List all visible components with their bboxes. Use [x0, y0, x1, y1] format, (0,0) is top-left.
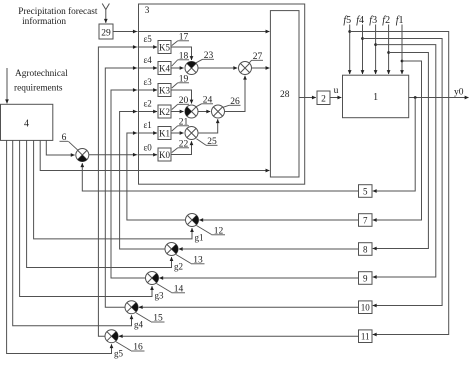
label 27 [249, 52, 263, 63]
summing junction 14 [146, 272, 159, 285]
wire agrotechnical input to block 4 [6, 68, 8, 103]
antenna (precipitation receiver) [102, 4, 109, 10]
summing junction 23 [185, 61, 198, 74]
wire box 9 to junction 14 [159, 277, 358, 279]
label f3 [369, 15, 377, 26]
wire junction 23 to junction 27 [198, 67, 237, 69]
label 15 [136, 313, 165, 324]
wire f4 tap to box 10 input [363, 39, 443, 306]
block 2 (actuator) [317, 91, 330, 105]
svg-text:requirements: requirements [14, 84, 63, 94]
svg-text:K2: K2 [159, 107, 170, 117]
svg-text:2: 2 [321, 95, 326, 105]
wire 17 K5 to junction 23 [171, 47, 192, 60]
label 12 [197, 226, 226, 237]
svg-text:g1: g1 [195, 233, 204, 243]
node f5 tap [348, 30, 351, 33]
svg-text:y0: y0 [454, 88, 464, 98]
wire box 7 to junction 12 [199, 219, 358, 221]
svg-text:K4: K4 [159, 63, 170, 73]
wire block 4 to junction 6 [46, 140, 74, 155]
wire block 4 drop to block 28 bottom input [40, 140, 269, 170]
wire block 4 drop to junction 12 (g1 feed) [34, 140, 192, 239]
wire junction 12 output to ε1 input [127, 133, 186, 220]
svg-text:K5: K5 [159, 42, 170, 52]
wire f5 into block 1 [349, 25, 351, 75]
wire y0 tap to box 5 input [373, 98, 415, 192]
svg-text:1: 1 [373, 92, 378, 103]
wire f2 tap to box 8 input [373, 53, 429, 249]
wire u block 2 to block 1 [330, 97, 341, 99]
block 4 (agrotechnical requirements setter) [1, 104, 53, 140]
node f4 tap [361, 37, 364, 40]
wire f3 tap to box 9 input [373, 45, 436, 277]
label 16 [116, 342, 145, 353]
svg-text:ε0: ε0 [144, 143, 153, 153]
label 19 [172, 75, 189, 89]
wire block 4 drop to junction 16 (g5 feed) [7, 140, 112, 353]
svg-text:u: u [334, 86, 339, 96]
svg-text:ε5: ε5 [144, 34, 153, 44]
label eps5 [144, 34, 153, 44]
wire block 4 drop to junction 13 (g2 feed) [27, 140, 172, 267]
svg-text:K3: K3 [159, 85, 170, 95]
block 8 (feedback sensor) [359, 243, 373, 256]
label 24 [196, 96, 213, 107]
node f2 tap [387, 51, 390, 54]
wire block 4 drop to junction 14 (g3 feed) [20, 140, 152, 296]
svg-text:Precipitation forecast: Precipitation forecast [18, 6, 98, 17]
wire 29 to block 28 top input [113, 31, 269, 33]
wire f1 tap to box 7 input [373, 61, 422, 220]
svg-text:3: 3 [145, 6, 150, 16]
svg-text:information: information [22, 16, 66, 27]
svg-text:K1: K1 [159, 128, 170, 138]
summing junction 13 [165, 243, 178, 256]
svg-text:4: 4 [24, 119, 29, 130]
label 6 [60, 133, 79, 150]
wire 22 K0 to junction 25 [171, 141, 192, 154]
summing junction 24 [185, 105, 198, 118]
block 29 (forecast receiver) [99, 24, 113, 39]
label eps2 [144, 98, 152, 108]
label g4 [134, 320, 144, 330]
label f5 [343, 15, 351, 26]
label 18 [172, 52, 189, 67]
block 9 (feedback sensor) [359, 272, 373, 285]
label Precipitation forecast information [18, 6, 98, 27]
summing junction 25 [185, 127, 198, 140]
label g3 [155, 291, 165, 301]
svg-text:ε3: ε3 [144, 77, 153, 87]
wire box 5 to junction 6 [82, 163, 358, 191]
wire 19 K3 to junction 24 [171, 90, 192, 104]
wire 21 K1 to junction 25 [171, 132, 184, 134]
label g2 [174, 262, 183, 272]
wire junction 25 to junction 26 [198, 119, 218, 133]
svg-text:5: 5 [363, 186, 368, 196]
label 22 [172, 140, 189, 153]
label g5 [114, 349, 124, 359]
svg-text:f2: f2 [382, 15, 390, 26]
wire box 8 to junction 13 [179, 248, 359, 250]
svg-text:11: 11 [361, 332, 370, 342]
wire f3 into block 1 [375, 25, 377, 75]
svg-text:g3: g3 [155, 291, 165, 301]
summing junction 12 [186, 214, 199, 227]
label 25 [197, 137, 218, 147]
wire junction 26 to junction 27 [225, 76, 246, 112]
summing junction 15 [125, 301, 138, 314]
block K1 [158, 127, 171, 140]
svg-text:f1: f1 [396, 15, 404, 26]
wire block 4 drop to junction 15 (g4 feed) [13, 140, 132, 325]
label 20 [172, 96, 189, 110]
svg-text:9: 9 [363, 273, 368, 283]
label eps1 [144, 120, 152, 130]
label f1 [396, 15, 404, 26]
block K4 [158, 62, 171, 75]
wire f2 into block 1 [388, 25, 390, 75]
svg-text:g5: g5 [114, 349, 124, 359]
label g1 [195, 233, 204, 243]
block 10 (feedback sensor) [359, 301, 373, 314]
label 26 [223, 97, 241, 107]
block 7 (feedback sensor) [359, 214, 373, 227]
svg-text:10: 10 [361, 303, 371, 313]
wire box 11 to junction 16 [119, 335, 359, 337]
block 28 (summator) [270, 11, 299, 177]
wire antenna to block 29 [105, 10, 107, 23]
svg-text:Agrotechnical: Agrotechnical [15, 69, 68, 79]
block 11 (feedback sensor) [359, 330, 373, 343]
svg-text:f3: f3 [369, 15, 377, 26]
svg-text:8: 8 [363, 244, 368, 254]
label e0 [144, 143, 153, 153]
label 17 [172, 33, 189, 46]
label 14 [157, 284, 186, 295]
label 23 [196, 51, 214, 63]
svg-text:29: 29 [101, 29, 111, 39]
label eps3 [144, 77, 153, 87]
wire block 28 to block 2 [299, 97, 316, 99]
wire y0 output [409, 97, 469, 99]
summing junction 26 [212, 105, 225, 118]
summing junction 27 [239, 62, 252, 75]
wire box 10 to junction 15 [139, 306, 359, 308]
svg-text:ε4: ε4 [144, 55, 153, 65]
block K3 [158, 84, 171, 97]
label 13 [176, 255, 205, 266]
svg-text:28: 28 [280, 90, 290, 100]
label f4 [356, 15, 364, 26]
label 21 [172, 118, 189, 132]
block 1 (plant) [343, 75, 409, 118]
label eps4 [144, 55, 153, 65]
block K5 [158, 41, 171, 54]
node f3 tap [374, 43, 377, 46]
wire 20 K2 to junction 24 [171, 111, 184, 113]
wire e0 junction 6 to K0 [89, 154, 157, 156]
box 3 (controller boundary) [139, 4, 305, 184]
wire f4 into block 1 [362, 25, 364, 75]
wire junction 15 output to ε4 input [105, 68, 157, 307]
wire junction 27 to block 28 [252, 67, 270, 69]
summing junction 6 [76, 149, 89, 162]
svg-text:f4: f4 [356, 15, 364, 26]
svg-text:ε1: ε1 [144, 120, 152, 130]
label y0 [454, 88, 464, 98]
wire junction 24 to junction 26 [198, 111, 210, 113]
label f2 [382, 15, 390, 26]
node f1 tap [401, 60, 404, 63]
wire junction 13 output to ε2 input [120, 112, 165, 250]
node y0 tap [414, 96, 417, 99]
block 5 (feedback sensor) [359, 185, 373, 198]
label u [334, 86, 339, 96]
wire f5 tap to box 11 input [350, 32, 449, 335]
wire 18 K4 to junction 23 [171, 67, 184, 69]
wire junction 14 output to ε3 input [111, 90, 157, 278]
summing junction 16 [105, 330, 118, 343]
svg-text:ε2: ε2 [144, 98, 152, 108]
label Agrotechnical requirements [14, 69, 68, 94]
svg-text:g4: g4 [134, 320, 144, 330]
svg-text:f5: f5 [343, 15, 351, 26]
wire junction 16 output to ε5 input [98, 47, 157, 336]
block K2 [158, 105, 171, 118]
block K0 [158, 148, 171, 161]
svg-text:g2: g2 [174, 262, 183, 272]
wire f1 into block 1 [401, 25, 403, 75]
svg-text:K0: K0 [159, 150, 170, 160]
svg-text:7: 7 [363, 215, 368, 225]
